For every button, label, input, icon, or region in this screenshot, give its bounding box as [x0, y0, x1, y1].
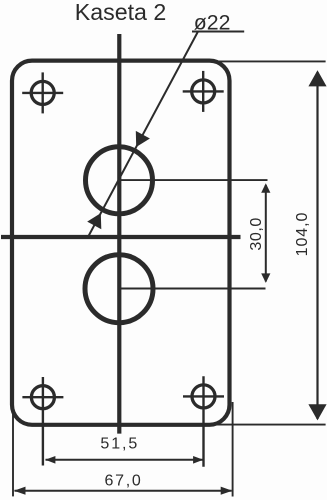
svg-text:Kaseta 2: Kaseta 2	[75, 0, 167, 25]
ext line 67 left	[12, 402, 14, 496]
dim 30,0 line	[265, 185, 267, 282]
dim 51,5 line	[46, 459, 204, 461]
ext line 67 right	[232, 402, 234, 497]
ext line from top edge	[215, 60, 326, 62]
hole BL	[22, 377, 63, 466]
leader line	[88, 32, 198, 238]
hole BR	[183, 376, 224, 467]
big circle upper	[86, 147, 153, 214]
wire: vertical centerline	[117, 34, 121, 434]
plate outline	[12, 61, 230, 425]
wire: horizontal centerline	[1, 235, 241, 239]
dim 104,0 line	[316, 72, 318, 419]
leader arrow lower (points up-right at circle)	[87, 213, 101, 229]
ext line lower circle center	[119, 288, 266, 290]
svg-text:51,5: 51,5	[100, 435, 139, 452]
dim 67,0 line	[15, 490, 232, 492]
big circle lower	[85, 255, 153, 323]
underline of ø22	[192, 31, 244, 33]
hole TR	[183, 71, 224, 112]
ext line from bottom edge	[215, 424, 326, 426]
ext line upper circle center	[119, 179, 268, 181]
svg-text:67,0: 67,0	[105, 473, 143, 490]
svg-text:30,0: 30,0	[248, 217, 265, 251]
hole TL	[22, 72, 63, 113]
leader arrow upper (points down-left at circle)	[136, 131, 150, 147]
svg-text:104,0: 104,0	[294, 212, 311, 257]
